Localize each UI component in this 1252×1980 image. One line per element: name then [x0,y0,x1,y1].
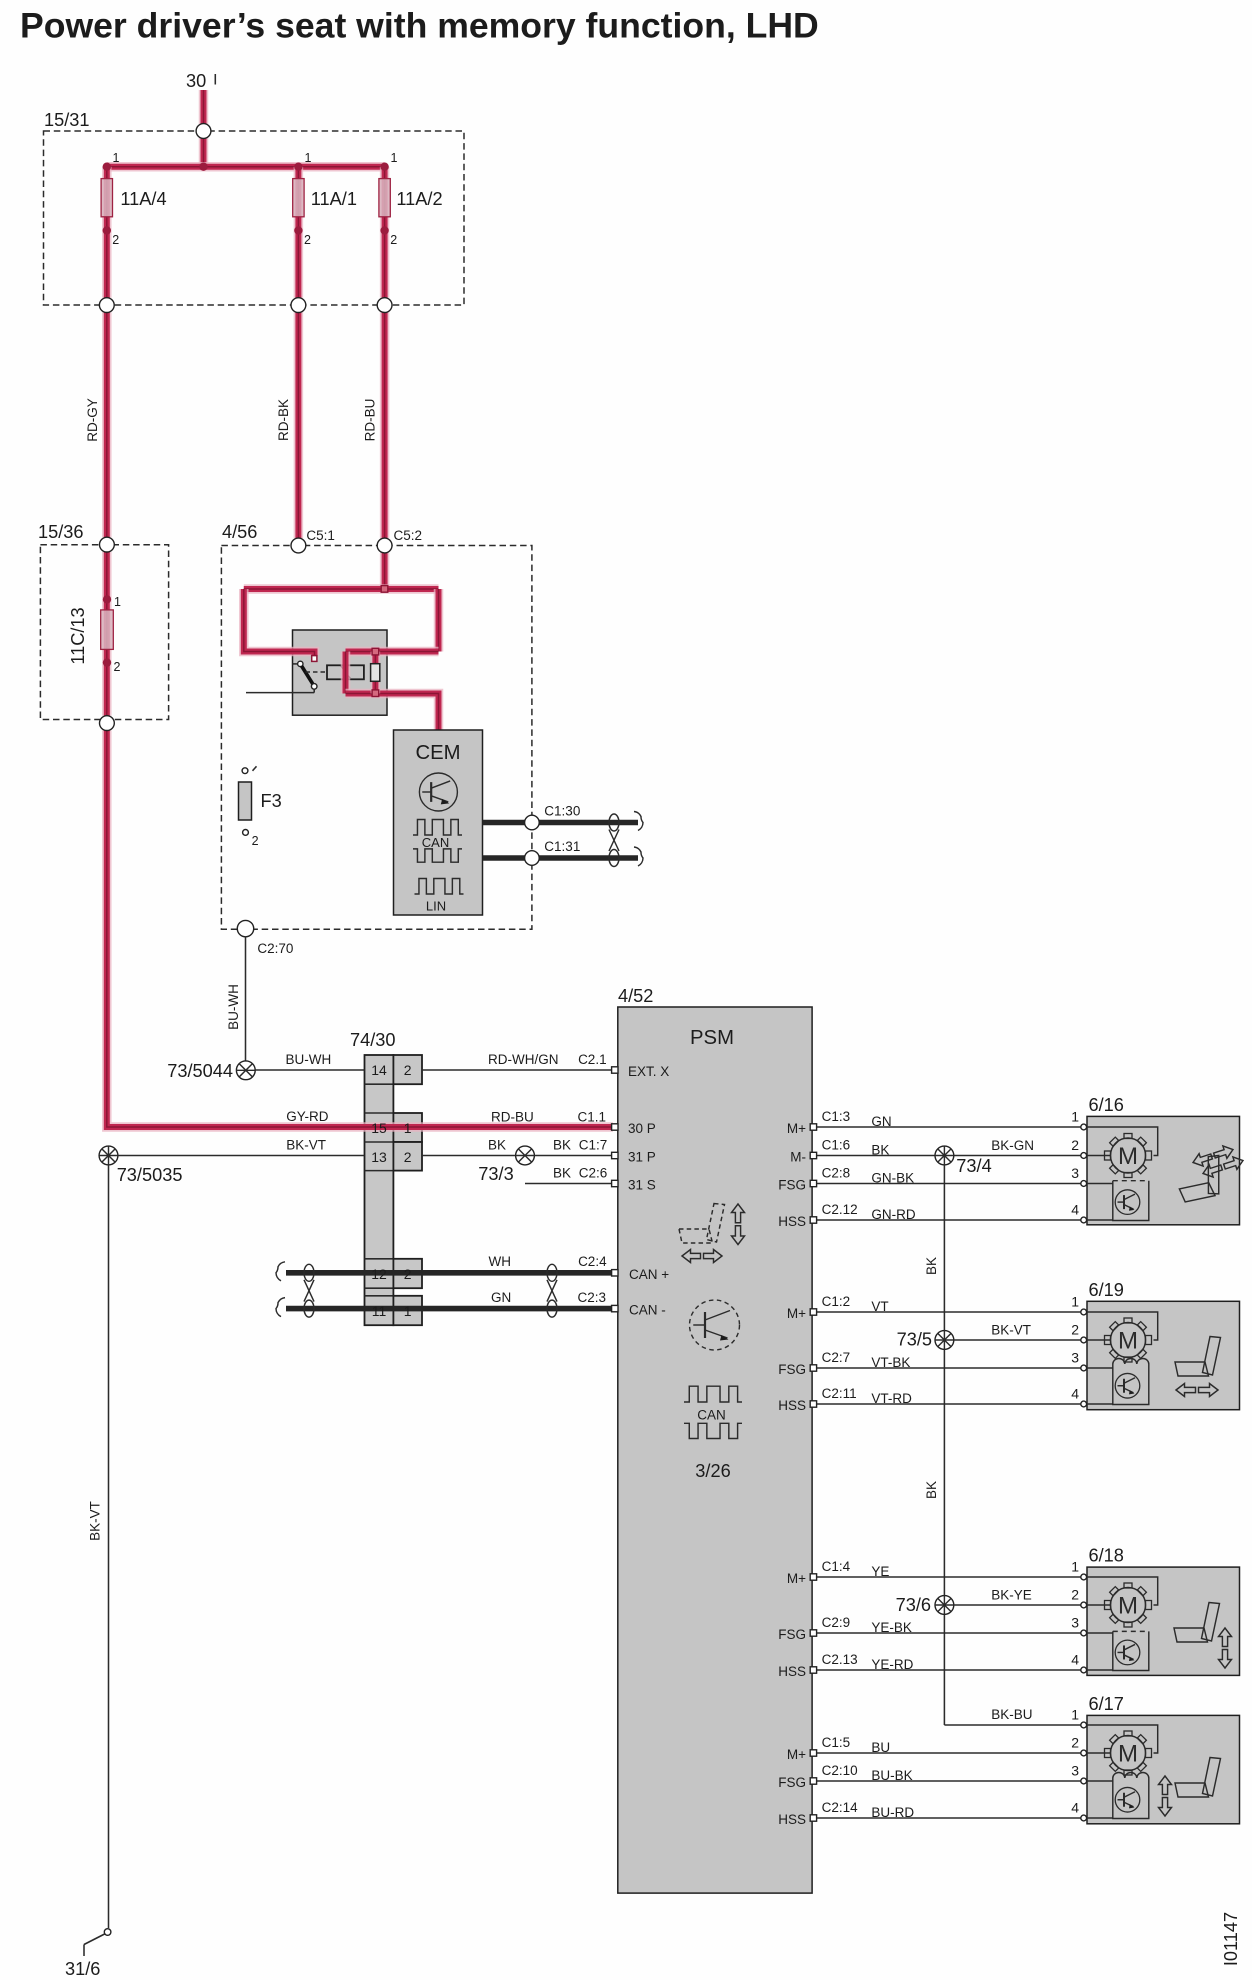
svg-text:GN: GN [491,1290,511,1305]
svg-text:6/18: 6/18 [1089,1546,1124,1566]
fuse 11A/2 [379,179,390,217]
svg-text:2: 2 [1071,1137,1079,1153]
svg-text:PSM: PSM [690,1027,734,1049]
wire GN-RD HSS [817,1219,1081,1221]
svg-text:BK: BK [553,1166,571,1181]
wire BK to 31P [534,1155,611,1157]
svg-text:4: 4 [1071,1386,1079,1402]
ECU CEM [394,730,483,915]
connector 15/36 top [100,537,115,552]
svg-text:C1:3: C1:3 [822,1109,851,1124]
svg-text:C2:9: C2:9 [822,1615,851,1630]
svg-text:C2:70: C2:70 [257,941,293,956]
svg-text:2: 2 [112,233,119,247]
wire BK pin13 to splice 73/3 [422,1155,516,1157]
svg-text:GY-RD: GY-RD [286,1109,329,1124]
fuse box 15/36 [40,545,168,720]
CEM transistor [419,773,457,811]
svg-text:3/26: 3/26 [695,1461,730,1481]
svg-text:Power driver’s seat with memor: Power driver’s seat with memory function… [20,6,819,46]
svg-text:1: 1 [305,151,312,165]
wire VT-BK FSG 6/19 [817,1367,1081,1369]
svg-text:2: 2 [390,233,397,247]
svg-text:C2:7: C2:7 [822,1350,851,1365]
svg-text:EXT. X: EXT. X [628,1064,669,1079]
wire 30 feed [199,90,209,124]
relay switch [298,661,303,666]
svg-text:73/6: 73/6 [896,1595,931,1615]
svg-text:31 S: 31 S [628,1178,656,1193]
svg-text:C2:6: C2:6 [579,1166,608,1181]
svg-text:11A/1: 11A/1 [311,189,357,209]
svg-text:4/52: 4/52 [618,986,653,1006]
svg-text:6/19: 6/19 [1089,1280,1124,1300]
svg-text:BU-WH: BU-WH [286,1052,332,1067]
svg-text:1: 1 [1071,1559,1079,1575]
twisted pair CAN right [547,1264,557,1281]
svg-text:3: 3 [1071,1350,1079,1366]
wire BK-VT to ground 31/6 [108,1165,110,1928]
wire GY-RD down and to PSM 30P [107,730,613,1127]
svg-text:C2:11: C2:11 [822,1386,857,1401]
svg-text:M+: M+ [787,1121,806,1136]
CEM LIN waveform [415,879,464,895]
svg-text:CAN +: CAN + [629,1267,669,1282]
svg-text:BU-BK: BU-BK [871,1768,912,1783]
svg-text:BK-YE: BK-YE [991,1588,1032,1603]
relay switch output wire [246,692,314,694]
wire relay left link [341,652,351,694]
splice 73/6 [935,1596,954,1615]
svg-text:HSS: HSS [778,1664,806,1679]
connector 15/31 outputs [99,298,114,313]
wire RD-BU [380,312,390,538]
wire YE-BK FSG 6/18 [817,1632,1081,1634]
twisted pair CEM CAN [609,814,619,831]
ECU PSM 4/52 [618,1007,812,1893]
svg-text:2: 2 [1071,1735,1079,1751]
svg-text:3: 3 [1071,1763,1079,1779]
svg-text:BK-GN: BK-GN [991,1138,1034,1153]
svg-text:C2.12: C2.12 [822,1202,858,1217]
wire fuse 11A/1 drop [294,167,304,298]
svg-text:1: 1 [391,151,398,165]
PSM pin CAN- [612,1305,618,1311]
svg-text:31/6: 31/6 [65,1959,100,1979]
svg-text:BK-VT: BK-VT [286,1138,326,1153]
svg-text:F3: F3 [261,791,282,811]
svg-text:73/5035: 73/5035 [117,1165,183,1185]
svg-text:C1:31: C1:31 [544,839,580,854]
svg-text:C1.1: C1.1 [577,1110,606,1125]
svg-text:BK: BK [924,1481,939,1499]
svg-text:FSG: FSG [778,1178,806,1193]
splice 73/3 [516,1146,535,1165]
splice 73/5 [935,1331,954,1350]
splice 73/4 [935,1146,954,1165]
CAN continuation arcs [634,812,643,831]
connector C5:2 [377,538,392,553]
twisted pair CAN left [304,1264,314,1281]
CAN left continuation arcs [276,1262,285,1281]
wire BK-BU to 6/17 [944,1724,1080,1726]
wire GN M+ 6/16 [817,1126,1081,1128]
connector 74/30 [365,1055,394,1325]
svg-text:3: 3 [1071,1615,1079,1631]
svg-text:HSS: HSS [778,1812,806,1827]
svg-text:BK-VT: BK-VT [991,1323,1031,1338]
svg-text:BK: BK [553,1138,571,1153]
wire through 11C/13 [102,552,112,716]
svg-text:1: 1 [404,1120,412,1136]
svg-text:1: 1 [404,1303,412,1319]
relay coil link [306,671,327,673]
wire BU-WH vertical [245,937,247,1061]
svg-text:LIN: LIN [426,899,446,914]
svg-text:VT-BK: VT-BK [871,1355,910,1370]
svg-text:VT-RD: VT-RD [871,1391,912,1406]
svg-text:WH: WH [489,1254,512,1269]
CEM CAN waveforms [413,820,462,836]
svg-text:HSS: HSS [778,1214,806,1229]
connector C2:70 [237,920,253,936]
wire relay element [371,652,381,694]
svg-text:GN: GN [871,1114,891,1129]
fuse 11C/13 [103,595,111,603]
svg-text:BU-RD: BU-RD [871,1805,914,1820]
PSM pin 30P [612,1124,618,1130]
wire fuse 11A/2 drop [380,167,390,298]
svg-text:M: M [1118,1741,1138,1768]
wire RD-BK [294,312,304,538]
ground terminal 31/6 [104,1929,111,1936]
svg-text:2: 2 [114,660,121,674]
svg-text:M-: M- [790,1150,806,1165]
svg-text:C2:14: C2:14 [822,1800,859,1815]
motor assembly 6/19 [1087,1301,1240,1409]
svg-text:4: 4 [1071,1202,1079,1218]
svg-text:1: 1 [1071,1707,1079,1723]
PSM transistor [690,1300,740,1350]
wire YE M+ 6/18 [817,1576,1081,1578]
svg-text:2: 2 [404,1062,412,1078]
connector 15/36 bottom [100,716,115,731]
svg-text:C5:1: C5:1 [306,528,335,543]
motor assembly 6/18 [1087,1567,1240,1675]
svg-text:BK: BK [924,1257,939,1275]
svg-text:C2.1: C2.1 [578,1052,607,1067]
svg-text:C1:7: C1:7 [579,1138,608,1153]
svg-text:CAN: CAN [422,835,449,850]
connector C1:31 [525,851,540,866]
PSM pin 31P [612,1152,618,1158]
svg-text:14: 14 [371,1062,387,1078]
svg-text:FSG: FSG [778,1775,806,1790]
PSM pin EXT.X [612,1067,618,1073]
wire GN-BK FSG [817,1183,1081,1185]
relay in CEM [293,630,388,715]
svg-text:YE-RD: YE-RD [871,1657,913,1672]
wire BK vertical bus [943,1165,945,1725]
svg-text:BU: BU [871,1740,890,1755]
svg-text:BK: BK [488,1138,506,1153]
svg-text:1: 1 [1071,1294,1079,1310]
wire BK M- [817,1155,1081,1157]
svg-text:M: M [1118,1593,1138,1620]
wire BK-VT to pin 13 [118,1155,365,1157]
svg-text:C2:8: C2:8 [822,1166,851,1181]
junction C5:2 on loop [381,586,388,593]
svg-text:30: 30 [186,71,206,91]
wire relay feed loop [244,584,439,594]
svg-text:2: 2 [1071,1587,1079,1603]
PSM motor pins [810,1124,816,1130]
svg-text:FSG: FSG [778,1362,806,1377]
svg-text:C1:5: C1:5 [822,1735,851,1750]
wire BU M+ 6/17 [817,1752,1081,1754]
svg-text:RD-BK: RD-BK [276,399,291,441]
wire fuse 11A/4 drop [102,167,112,298]
ground 73/5044 [236,1061,255,1080]
svg-text:11A/2: 11A/2 [396,189,442,209]
svg-text:6/16: 6/16 [1089,1095,1124,1115]
wire CAN WH [286,1270,612,1276]
svg-text:73/4: 73/4 [956,1156,991,1176]
svg-text:2: 2 [404,1266,412,1282]
connector node 30 on 15/31 [196,124,211,139]
svg-text:YE-BK: YE-BK [871,1620,912,1635]
svg-text:CEM: CEM [415,742,460,764]
svg-text:13: 13 [371,1149,387,1165]
svg-text:M+: M+ [787,1306,806,1321]
svg-text:CAN: CAN [697,1408,726,1423]
fuse F3 [242,768,248,774]
svg-text:15/36: 15/36 [38,522,84,542]
wire CAN to C1:31 [483,855,639,861]
svg-text:2: 2 [1071,1322,1079,1338]
svg-text:BU-WH: BU-WH [226,984,241,1030]
svg-text:1: 1 [1071,1109,1079,1125]
PSM pin 31S [612,1180,618,1186]
svg-text:11C/13: 11C/13 [68,607,88,664]
svg-text:30 P: 30 P [628,1121,656,1136]
svg-text:C2:4: C2:4 [578,1254,607,1269]
PSM seat icon [679,1204,725,1244]
svg-text:C1:4: C1:4 [822,1559,851,1574]
svg-text:11A/4: 11A/4 [120,189,166,209]
wire VT-RD HSS 6/19 [817,1403,1081,1405]
svg-text:4: 4 [1071,1800,1079,1816]
svg-text:GN-RD: GN-RD [871,1207,915,1222]
wire relay bottom link to CEM [346,694,439,732]
svg-text:C1:6: C1:6 [822,1138,851,1153]
svg-text:31 P: 31 P [628,1150,656,1165]
wire C5:2 into relay loop [380,553,390,589]
svg-text:RD-BU: RD-BU [491,1110,534,1125]
svg-text:11: 11 [372,1303,387,1319]
svg-text:YE: YE [871,1564,889,1579]
svg-text:C1:2: C1:2 [822,1294,851,1309]
svg-text:I01147: I01147 [1221,1912,1241,1966]
wire CAN to C1:30 [483,820,639,826]
svg-text:74/30: 74/30 [350,1030,396,1050]
relay element body [371,664,380,682]
wire red bus 15/31 [199,138,209,167]
motor assembly 6/17 [1087,1715,1240,1823]
svg-text:HSS: HSS [778,1398,806,1413]
svg-text:RD-GY: RD-GY [85,398,100,442]
wire BU-RD HSS 6/17 [817,1817,1081,1819]
connector C1:30 [525,815,540,830]
svg-text:RD-BU: RD-BU [363,399,378,442]
svg-text:RD-WH/GN: RD-WH/GN [488,1052,559,1067]
svg-text:15/31: 15/31 [44,110,90,130]
svg-text:12: 12 [371,1266,387,1282]
junction dots bus [103,163,111,171]
svg-text:1: 1 [113,151,120,165]
svg-text:VT: VT [871,1299,888,1314]
wire BU-WH to pin 14 [255,1069,364,1071]
svg-text:C2:10: C2:10 [822,1763,858,1778]
relay junction squares [372,648,379,655]
svg-text:2: 2 [304,233,311,247]
svg-text:C5:2: C5:2 [394,528,423,543]
svg-text:73/3: 73/3 [478,1164,513,1184]
svg-text:M+: M+ [787,1747,806,1762]
wire RD-GY [102,312,112,537]
connector C5:1 [291,538,306,553]
svg-text:M+: M+ [787,1571,806,1586]
wire BU-BK FSG 6/17 [817,1780,1081,1782]
fuse 11A/4 [101,179,112,217]
svg-text:4: 4 [1071,1652,1079,1668]
svg-text:M: M [1118,1143,1138,1170]
svg-text:BK: BK [871,1143,889,1158]
wire relay top link [346,647,439,657]
svg-text:2: 2 [404,1149,412,1165]
svg-text:GN-BK: GN-BK [871,1171,914,1186]
svg-text:C2:3: C2:3 [577,1290,606,1305]
wire RD-WH/GN to EXT.X [422,1069,612,1071]
svg-text:3: 3 [1071,1165,1079,1181]
svg-text:CAN -: CAN - [629,1303,666,1318]
wire VT M+ 6/19 [817,1311,1081,1313]
svg-text:BK-BU: BK-BU [991,1707,1032,1722]
svg-text:2: 2 [252,834,259,848]
relay switch fixed pin [312,656,317,662]
svg-text:FSG: FSG [778,1627,806,1642]
wire CAN GN [286,1306,612,1312]
fuse box 15/31 [44,131,465,305]
ground 73/5035 [99,1146,118,1165]
svg-text:4/56: 4/56 [222,522,257,542]
svg-text:1: 1 [114,595,121,609]
PSM CAN waveforms [684,1386,742,1402]
motor assembly 6/16 [1087,1116,1240,1224]
wire BK to 31S [525,1183,612,1185]
relay coil [327,665,364,679]
PSM pin CAN+ [612,1270,618,1276]
svg-text:73/5044: 73/5044 [167,1061,233,1081]
wire YE-RD HSS 6/18 [817,1669,1081,1671]
CEM module box 4/56 [221,546,532,930]
svg-text:73/5: 73/5 [897,1330,932,1350]
svg-text:C2.13: C2.13 [822,1652,858,1667]
svg-text:BK-VT: BK-VT [88,1501,103,1541]
fuse 11A/1 [293,179,304,217]
svg-text:15: 15 [371,1120,387,1136]
svg-text:6/17: 6/17 [1089,1694,1124,1714]
svg-text:C1:30: C1:30 [544,804,580,819]
svg-text:M: M [1118,1328,1138,1355]
